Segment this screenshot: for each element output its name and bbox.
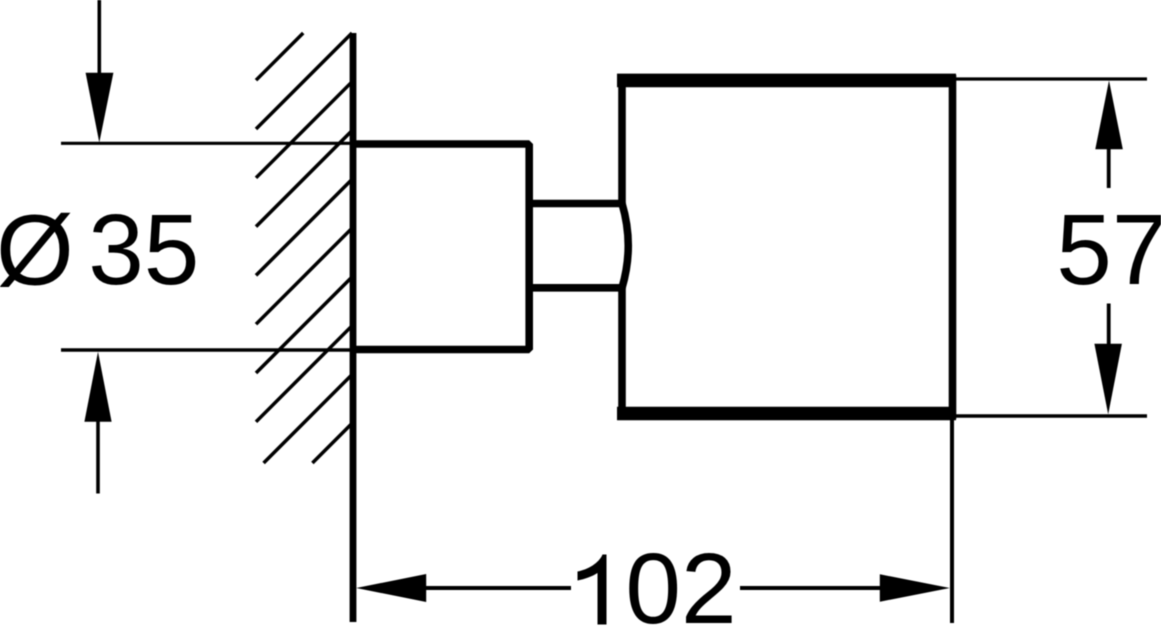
body left edge lower [618,287,626,418]
extension line top right [950,77,1147,80]
arrow down (57 dim) [1094,344,1122,415]
dim line diameter bottom [61,348,356,351]
dim 102 line right segment [740,586,882,590]
body left edge upper [618,75,626,204]
dim 102 extension right [950,420,954,623]
arrow up (57 dim) [1095,81,1123,150]
wall line [350,33,357,622]
neck top line [529,200,622,208]
flange outline [353,144,529,350]
neck bottom line [529,284,622,292]
wall hatching [256,33,353,463]
diameter top arrow stem [98,0,102,74]
dim 57 stem lower [1107,304,1111,346]
arrow up (diameter dim) [84,352,111,422]
dim 102 line left segment [424,586,571,590]
body left transition arc [622,204,628,288]
svg-text:Ø: Ø [0,195,74,307]
dim 57 stem upper [1107,148,1111,188]
body right edge [949,75,957,419]
dim line diameter top [61,142,356,145]
svg-text:35: 35 [88,194,199,306]
svg-text:02: 02 [625,533,736,627]
arrow down (diameter dim) [86,73,114,143]
extension line bottom right [950,414,1147,417]
body bottom edge [617,407,956,420]
body top edge [617,74,956,88]
svg-text:57: 57 [1056,194,1161,306]
label 102 digit 1 [578,555,607,625]
diameter bottom arrow stem [96,421,100,494]
arrow right (102 dim) [880,574,950,601]
arrow left (102 dim) [356,574,426,602]
